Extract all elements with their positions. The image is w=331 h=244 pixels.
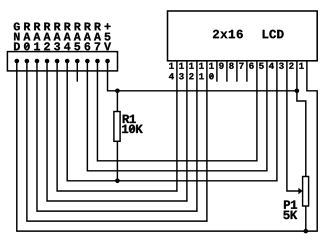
wire LCD pin 13 down to rail [186,61,188,202]
wire +5V rail from connector to LCD pin 2 [108,61,297,91]
label header row 2 "NAAAAAAAA5" [14,33,110,41]
wire LCD pin 7 stub (n.c.) [246,61,248,82]
junction dot R1 top on +5V rail [115,89,120,94]
wire GND: connector pin down to ground rail [16,61,18,231]
wire LCD pin 14 down to rail [176,61,178,192]
wire R1 top lead from +5V rail [116,91,118,112]
wire LCD pin 3 (Vo) to pot wiper [287,61,299,191]
wire LCD pin 12 down to rail [196,61,198,212]
wire RA4 to LCD pin 4 rail (R1 pull-up net) [67,61,277,181]
label header row 1 "GRRRRRRRR+" [14,23,111,31]
wire LCD pin 4 down to rail [276,61,278,182]
wire LCD pin 6 down to rail [256,61,258,162]
wire LCD pin 10 stub (n.c.) [216,61,218,82]
slashed-zero marks (bitmap font style) [25,43,213,132]
pot wiper arrowhead [298,188,302,194]
wire LCD pin 8 stub (n.c.) [236,61,238,82]
wire RA1 to LCD pin 12 [37,61,198,211]
wire RA2 to LCD pin 13 [47,61,188,201]
wire LCD pin 2 (VDD) down, jog to pot top [297,61,306,177]
potentiometer P1 body [303,177,309,207]
wire RA6 to LCD pin 5 [87,61,267,171]
junction dot +5V rail at LCD pin 2 [295,89,300,94]
resistor R1 body [114,112,120,142]
LCD pin number labels 14..1 [169,63,304,80]
label R1 [123,115,136,123]
wire RA0 to LCD pin 11 [27,61,208,221]
label P1 [284,201,297,209]
label "2x16 LCD" [213,30,284,39]
label 5K [283,211,297,219]
connector pin junction dots [14,59,109,64]
label header row 3 "D01234567V" [14,42,111,50]
wire ground rail to pot bottom and LCD pin 1 return [16,61,317,231]
wire LCD pin 5 down to rail [266,61,268,172]
wire RA3 to LCD pin 14 [57,61,177,191]
junction dot R1 bottom on RA4/pin4 rail [115,179,120,184]
wire R1 bottom lead [116,141,118,181]
connector header J1 (GND, RA0-RA7, +5V) [7,52,117,71]
wire RA7 to LCD pin 6 [97,61,257,161]
wire LCD pin 11 down to rail [206,61,208,222]
wire LCD pin 9 stub (n.c.) [226,61,228,82]
label 10K [122,125,143,134]
LCD module box [168,11,318,61]
wire RA5 stub (not connected) [76,61,78,82]
junction dot pot bottom on ground rail [304,229,309,234]
wire pot bottom to ground rail [305,206,307,231]
